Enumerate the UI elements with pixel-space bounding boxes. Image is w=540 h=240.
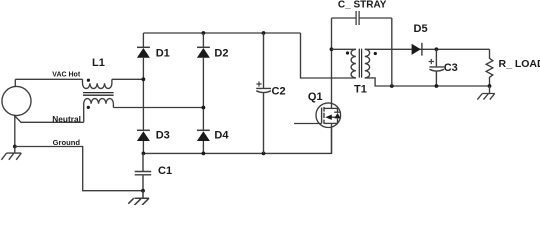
diode D2 — [202, 33, 204, 48]
svg-text:D4: D4 — [214, 129, 229, 141]
node top rail D2 junction — [202, 31, 206, 35]
L1 phase dot bottom — [87, 106, 90, 109]
svg-text:C_ STRAY: C_ STRAY — [338, 0, 387, 10]
Q1 body diode — [334, 108, 340, 123]
AC source plug circle — [2, 86, 31, 115]
svg-text:D2: D2 — [214, 47, 228, 59]
wire drop to transformer primary bottom (crosses drain riser) — [301, 33, 356, 78]
svg-text:Neutral: Neutral — [52, 114, 81, 124]
inductor L1 bottom winding — [84, 99, 114, 123]
T1 primary phase dot — [346, 51, 349, 54]
transformer T1 secondary winding — [365, 49, 370, 78]
diode D4 — [197, 129, 210, 131]
node top rail C2 junction — [262, 31, 266, 35]
wire secondary bottom to output return rail — [365, 78, 490, 86]
T1 core lines — [359, 49, 361, 78]
Q1 gate wire — [294, 123, 322, 125]
node C1 ground junction — [141, 189, 145, 193]
wire D1 anode to D3 cathode column — [142, 58, 144, 131]
inductor L1 common-mode choke top winding — [83, 79, 112, 88]
wire top rail from D1 to primary branch — [143, 32, 300, 34]
Q1 gate electrode — [321, 108, 323, 124]
wire secondary top to D5 and R load (crosses stray riser) — [365, 48, 490, 50]
svg-text:C3: C3 — [444, 62, 458, 74]
wire Neutral from plug to L1 — [15, 116, 84, 123]
L1 core lines — [83, 93, 114, 96]
wire ground drop from plug — [14, 116, 16, 147]
svg-text:Q1: Q1 — [308, 91, 323, 103]
chassis ground below C1 — [128, 191, 149, 206]
svg-text:D1: D1 — [156, 47, 170, 59]
resistor R_LOAD — [486, 49, 493, 86]
transformer T1 primary winding — [351, 49, 356, 78]
diode D5 — [412, 44, 421, 55]
svg-text:D5: D5 — [414, 23, 428, 35]
node primary top / drain junction — [330, 47, 334, 51]
svg-text:D3: D3 — [156, 129, 170, 141]
node D5 cathode / C3 junction — [435, 47, 439, 51]
Q1 body arrow — [325, 115, 332, 120]
node VAC hot bridge junction — [142, 77, 146, 81]
node stray/return junction — [390, 84, 394, 88]
L1 phase dot top — [87, 79, 90, 82]
Q1 source bar — [324, 122, 338, 124]
capacitor C_STRAY — [332, 11, 392, 25]
C2 plus sign — [256, 81, 261, 86]
wire bottom rail to Q1 source — [143, 128, 331, 154]
svg-text:L1: L1 — [92, 57, 105, 69]
Q1 source riser — [331, 123, 333, 153]
wire VAC Hot horizontal to L1 — [15, 78, 82, 80]
svg-text:T1: T1 — [354, 84, 367, 96]
wire L1 top output to bridge — [112, 78, 143, 80]
wire D2 anode to D4 cathode column — [202, 58, 204, 131]
svg-text:C1: C1 — [158, 165, 172, 177]
node bottom rail C2 junction — [262, 152, 266, 156]
svg-text:R_ LOAD: R_ LOAD — [499, 58, 540, 70]
node R load bottom ground junction — [488, 84, 492, 88]
transistor Q1 MOSFET body circle — [316, 103, 341, 128]
node ground junction — [13, 145, 17, 149]
node neutral bridge junction — [202, 106, 206, 110]
capacitor C1 — [135, 153, 152, 190]
capacitor C3 (polarized) — [429, 49, 444, 86]
diode D3 — [137, 129, 150, 131]
svg-text:C2: C2 — [272, 85, 286, 97]
node bottom rail D3 junction — [142, 152, 146, 156]
svg-text:Ground: Ground — [53, 138, 81, 147]
node bottom rail D4 junction — [202, 152, 206, 156]
T1 secondary phase dot — [374, 52, 377, 55]
Q1 drain bar — [324, 107, 338, 109]
C3 plus sign — [429, 59, 434, 64]
node C3 bottom junction — [435, 84, 439, 88]
chassis ground right — [477, 86, 495, 100]
Q1 channel dashes — [323, 107, 325, 124]
wire Ground horizontal then down to C1 bottom — [15, 147, 143, 191]
capacitor C2 (polarized) — [256, 33, 271, 153]
Q1 drain riser up to C_STRAY / primary (crosses primary-bottom wire) — [331, 18, 333, 108]
wire primary top to drain riser — [332, 48, 356, 50]
wire VAC Hot riser from plug top — [14, 79, 16, 86]
C_STRAY right riser to return rail (crosses secondary top wire) — [391, 18, 393, 86]
wire L1 bottom output to bridge (crosses D1 column) — [113, 107, 203, 109]
svg-text:VAC Hot: VAC Hot — [52, 71, 81, 78]
chassis ground left — [1, 147, 21, 160]
diode D1 — [142, 33, 144, 48]
